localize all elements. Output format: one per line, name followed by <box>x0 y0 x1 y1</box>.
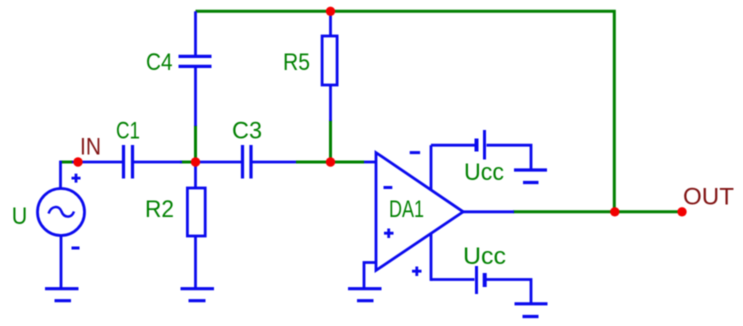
wire source top lead <box>59 161 62 189</box>
battery Ucc lower <box>431 266 531 304</box>
ground (Ucc upper) <box>514 170 547 183</box>
svg-text:C1: C1 <box>116 118 140 145</box>
svg-text:Ucc: Ucc <box>463 243 506 270</box>
battery Ucc upper <box>431 130 531 170</box>
node B junction <box>326 157 335 166</box>
wire op-amp positive supply pin (bottom) <box>430 233 433 281</box>
wire C1 right lead <box>133 161 182 164</box>
wire source to C1 (blue) <box>72 161 123 164</box>
node output junction <box>610 207 619 216</box>
resistor R5 <box>322 36 337 85</box>
wire green R5 lower net and op-amp input <box>331 120 365 162</box>
wire top feedback net <box>196 11 615 212</box>
svg-text:R2: R2 <box>145 196 174 223</box>
svg-text:C3: C3 <box>232 118 262 145</box>
source U <box>38 174 85 289</box>
resistor R2 <box>187 188 205 236</box>
node OUT <box>677 207 686 216</box>
wire R5 top lead <box>329 11 332 36</box>
op-amp DA1 <box>376 153 463 271</box>
svg-text:U: U <box>12 203 27 230</box>
svg-text:C4: C4 <box>146 49 173 76</box>
ground (op-amp non-inverting input) <box>348 289 382 301</box>
svg-text:DA1: DA1 <box>389 196 424 223</box>
svg-text:IN: IN <box>80 134 101 161</box>
wire C4 bottom lead <box>194 67 197 126</box>
ground (source) <box>45 289 79 301</box>
wire output net (green) <box>513 210 682 213</box>
node IN <box>73 157 82 166</box>
wire green C4 lower net <box>194 125 197 162</box>
wire C4 top lead <box>194 11 197 55</box>
wire R5 bottom lead <box>329 85 332 121</box>
node R5 top junction <box>326 7 335 16</box>
wire op-amp negative supply pin (top) <box>430 145 433 190</box>
wire node A to R2 <box>194 162 197 188</box>
wire green C3-node B segment <box>296 161 331 164</box>
node A junction <box>191 157 200 166</box>
capacitor C4 <box>179 56 212 66</box>
svg-text:R5: R5 <box>283 49 310 76</box>
label plus supply <box>412 267 422 277</box>
wire op-amp inverting input lead <box>364 161 376 164</box>
svg-text:Ucc: Ucc <box>464 159 504 186</box>
svg-text:OUT: OUT <box>683 184 734 211</box>
ground (Ucc lower) <box>515 304 548 317</box>
wire node A to C3 <box>196 161 242 164</box>
wire C3 right lead <box>252 161 297 164</box>
label minus supply <box>410 151 420 154</box>
wire R2 to ground <box>194 236 197 289</box>
capacitor C1 <box>124 145 133 179</box>
capacitor C3 <box>243 145 252 179</box>
wire green stub at source corner <box>60 161 73 164</box>
wire non-inverting input to ground <box>364 263 376 289</box>
ground (R2) <box>181 289 215 301</box>
wire green stub left of node A <box>180 161 196 164</box>
wire op-amp output lead <box>462 210 514 213</box>
